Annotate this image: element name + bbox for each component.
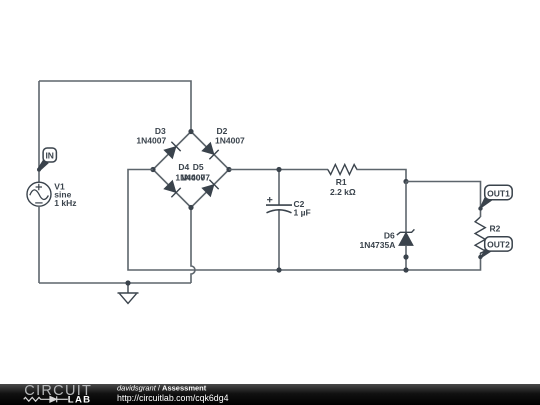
svg-text:D3: D3	[155, 126, 166, 136]
node OUT2 tap	[478, 255, 482, 259]
wire bridge bottom lead with hop over mid rail	[191, 208, 195, 284]
footer bar	[0, 384, 540, 405]
label R1 2.2 kOhm	[330, 177, 356, 197]
label D2 1N4007	[215, 126, 245, 146]
node C2 bottom	[276, 267, 281, 272]
node bridge right	[226, 167, 231, 172]
svg-text:D6: D6	[384, 230, 395, 240]
capacitor C2	[266, 197, 292, 213]
svg-text:http://circuitlab.com/cqk6dg4: http://circuitlab.com/cqk6dg4	[117, 393, 229, 403]
wire C2 top lead	[278, 170, 280, 206]
net flag OUT2	[481, 237, 512, 258]
node bridge left	[150, 167, 155, 172]
label V1 sine 1 kHz	[54, 181, 76, 208]
diode D5	[202, 180, 219, 197]
svg-text:1N4007: 1N4007	[215, 135, 245, 145]
diode D3	[164, 142, 181, 159]
node D6 anode	[403, 254, 408, 259]
wire node to R2 top	[406, 182, 481, 218]
wire D6 anode to rail	[405, 245, 407, 270]
wire node to D6 cathode	[405, 182, 407, 233]
label C2 1 uF	[294, 199, 311, 218]
resistor R2	[475, 217, 485, 253]
wire V1 top lead	[38, 81, 40, 182]
svg-text:2.2 kΩ: 2.2 kΩ	[330, 187, 356, 197]
svg-text:OUT1: OUT1	[487, 188, 510, 198]
ground	[118, 283, 139, 303]
resistor R1	[328, 165, 357, 175]
label D3 1N4007	[136, 126, 166, 146]
svg-text:1 µF: 1 µF	[294, 208, 311, 218]
svg-text:R1: R1	[336, 177, 347, 187]
svg-text:D4: D4	[178, 162, 189, 172]
wire bridge diamond	[153, 132, 229, 208]
wire bottom rail V1 to bridge	[39, 282, 191, 284]
label D6 1N4735A	[359, 230, 395, 250]
wire negative rail from bridge left vertex to R2 bottom	[128, 170, 481, 271]
net flag OUT1	[480, 185, 512, 208]
diode D2	[202, 142, 219, 159]
svg-text:1N4007: 1N4007	[136, 135, 166, 145]
node OUT1 tap	[478, 206, 482, 210]
svg-text:1N4007: 1N4007	[180, 173, 210, 183]
svg-text:1 kHz: 1 kHz	[54, 198, 76, 208]
svg-text:1N4735A: 1N4735A	[359, 240, 395, 250]
zener diode D6	[397, 229, 415, 245]
node ground junction	[125, 280, 130, 285]
wire C2 bottom lead	[278, 210, 280, 270]
svg-text:R2: R2	[490, 224, 501, 234]
svg-text:LAB: LAB	[68, 395, 92, 405]
voltage source V1	[27, 182, 51, 206]
node D6 rail junction	[403, 267, 408, 272]
svg-text:D2: D2	[217, 126, 228, 136]
node C2 top	[276, 167, 281, 172]
svg-text:davidsgrant / Assessment: davidsgrant / Assessment	[117, 383, 207, 392]
wire R1 to node	[357, 170, 407, 182]
node output junction	[403, 179, 408, 184]
wire top rail from V1 to bridge top vertex	[39, 81, 191, 132]
label D4 D5 center	[175, 162, 210, 183]
wire V1 bottom lead	[38, 206, 40, 283]
wire positive rail bridge right to R1	[229, 169, 328, 171]
svg-text:IN: IN	[45, 151, 54, 161]
node bridge top	[188, 129, 193, 134]
svg-text:D5: D5	[193, 162, 204, 172]
node bridge bottom	[188, 205, 193, 210]
net flag IN	[37, 148, 56, 172]
diode D4	[164, 180, 181, 197]
svg-text:OUT2: OUT2	[487, 240, 510, 250]
CircuitLab logo resistor-diode symbol	[24, 396, 68, 402]
